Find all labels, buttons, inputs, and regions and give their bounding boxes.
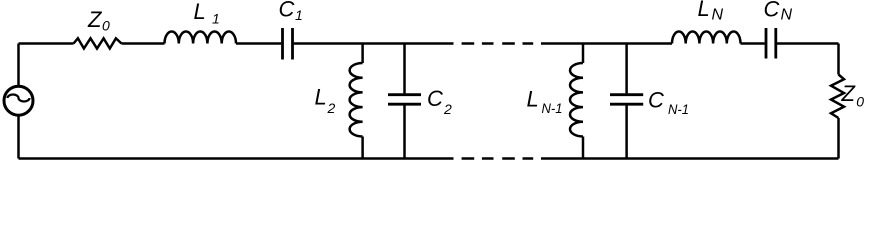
svg-text:C: C <box>279 0 295 22</box>
svg-text:L: L <box>698 0 710 21</box>
svg-text:C: C <box>648 88 664 113</box>
svg-text:C: C <box>427 86 443 111</box>
svg-text:0: 0 <box>102 18 110 34</box>
svg-text:2: 2 <box>327 100 336 116</box>
svg-text:C: C <box>764 0 780 22</box>
svg-text:1: 1 <box>212 11 220 27</box>
svg-text:2: 2 <box>443 101 452 117</box>
svg-text:L: L <box>315 85 327 110</box>
svg-text:Z: Z <box>87 7 103 32</box>
svg-text:N-1: N-1 <box>668 101 689 117</box>
svg-text:N: N <box>781 6 793 23</box>
svg-text:Z: Z <box>841 81 857 106</box>
svg-text:L: L <box>527 86 539 111</box>
svg-text:1: 1 <box>295 7 303 23</box>
svg-text:L: L <box>194 0 206 24</box>
svg-text:N: N <box>712 7 724 24</box>
svg-text:N-1: N-1 <box>542 100 563 116</box>
svg-text:0: 0 <box>856 94 864 110</box>
